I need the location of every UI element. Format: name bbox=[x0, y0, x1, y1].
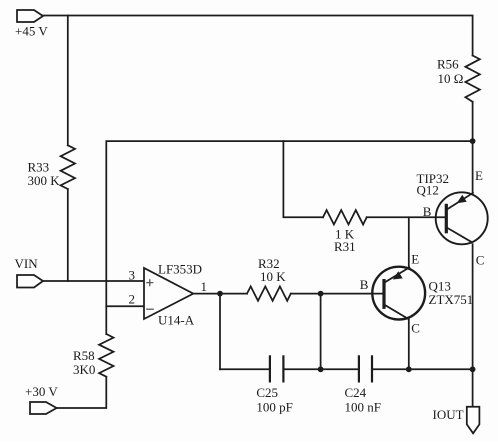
svg-text:B: B bbox=[423, 204, 432, 219]
wire feedback rail down to R31 bbox=[283, 141, 323, 217]
op-amp minus input marker bbox=[147, 308, 153, 310]
junction node at op-amp output bbox=[217, 291, 223, 297]
junction node cap row Q13 bbox=[406, 366, 412, 372]
input tag VIN bbox=[17, 275, 43, 288]
capacitor C24 bbox=[359, 356, 372, 381]
svg-text:R56: R56 bbox=[437, 57, 459, 72]
power tag +30V bbox=[30, 402, 57, 414]
svg-text:C: C bbox=[411, 321, 420, 336]
wire op-amp output to R32 bbox=[193, 293, 247, 295]
junction node at R32 right bbox=[318, 291, 324, 297]
output tag IOUT bbox=[467, 407, 480, 434]
svg-text:C25: C25 bbox=[256, 385, 278, 400]
svg-text:100 nF: 100 nF bbox=[345, 400, 381, 415]
junction node cap row right bbox=[470, 366, 476, 372]
junction node cap row left bbox=[318, 366, 324, 372]
resistor R58 bbox=[99, 334, 113, 377]
junction node at R56 bottom bbox=[470, 138, 476, 144]
transistor Q13 bbox=[372, 267, 425, 320]
resistor R31 bbox=[323, 210, 367, 224]
svg-text:LF353D: LF353D bbox=[158, 262, 202, 277]
wire top rail from +45V tag to R56 bbox=[43, 16, 473, 56]
wire R31 to Q12 base bbox=[367, 216, 445, 218]
svg-text:3: 3 bbox=[129, 268, 136, 283]
svg-text:E: E bbox=[411, 252, 419, 267]
wire VIN to op-amp pin3 bbox=[43, 280, 144, 282]
wire R33 bottom to VIN node bbox=[67, 189, 69, 281]
wire R32 to Q13 base bbox=[291, 293, 383, 295]
svg-text:VIN: VIN bbox=[15, 256, 39, 271]
wire R32 node down to cap row bbox=[320, 294, 322, 370]
svg-text:B: B bbox=[360, 277, 369, 292]
wire pin2 branch bbox=[106, 305, 144, 307]
svg-text:C24: C24 bbox=[345, 385, 367, 400]
wire feedback top from node down-left to pin2 bbox=[106, 141, 472, 334]
wire cap row right bbox=[372, 368, 473, 370]
svg-text:10 K: 10 K bbox=[260, 269, 286, 284]
wire R58 bottom to +30V tag bbox=[57, 377, 107, 408]
svg-text:R31: R31 bbox=[334, 239, 356, 254]
power tag +45V bbox=[17, 10, 43, 22]
wire cap row left bbox=[220, 368, 270, 370]
svg-text:Q12: Q12 bbox=[417, 183, 439, 198]
wire Q12 collector down to output row bbox=[472, 244, 474, 369]
svg-text:R58: R58 bbox=[73, 348, 95, 363]
wire output node down to IOUT tag bbox=[472, 369, 474, 407]
svg-text:+30 V: +30 V bbox=[25, 384, 58, 399]
svg-text:3K0: 3K0 bbox=[73, 362, 95, 377]
svg-text:ZTX751: ZTX751 bbox=[429, 292, 474, 307]
svg-text:10 Ω: 10 Ω bbox=[438, 71, 464, 86]
wire Q13 collector down to cap row bbox=[408, 319, 410, 369]
wire +45V rail down to R33 bbox=[67, 16, 69, 146]
svg-text:100 pF: 100 pF bbox=[256, 400, 292, 415]
svg-text:U14-A: U14-A bbox=[158, 313, 195, 328]
svg-text:C: C bbox=[476, 253, 485, 268]
resistor R32 bbox=[247, 286, 291, 300]
wire cap row middle bbox=[283, 368, 359, 370]
capacitor C25 bbox=[270, 356, 284, 381]
svg-text:+45 V: +45 V bbox=[15, 24, 48, 39]
wire output node down to cap row bbox=[219, 294, 221, 370]
svg-text:IOUT: IOUT bbox=[433, 407, 464, 422]
op-amp plus input marker bbox=[147, 280, 153, 286]
svg-text:2: 2 bbox=[129, 292, 136, 307]
transistor Q12 bbox=[436, 192, 488, 244]
svg-text:E: E bbox=[475, 168, 483, 183]
resistor R33 bbox=[61, 145, 75, 189]
svg-text:1: 1 bbox=[201, 279, 208, 294]
wire R56 bottom to node bbox=[472, 102, 474, 141]
wire Q13 emitter up to base rail bbox=[408, 217, 410, 267]
resistor R56 bbox=[465, 56, 479, 102]
svg-text:300 K: 300 K bbox=[28, 173, 61, 188]
wire Q12 emitter up to node bbox=[472, 141, 474, 192]
op-amp U14-A bbox=[144, 268, 193, 319]
